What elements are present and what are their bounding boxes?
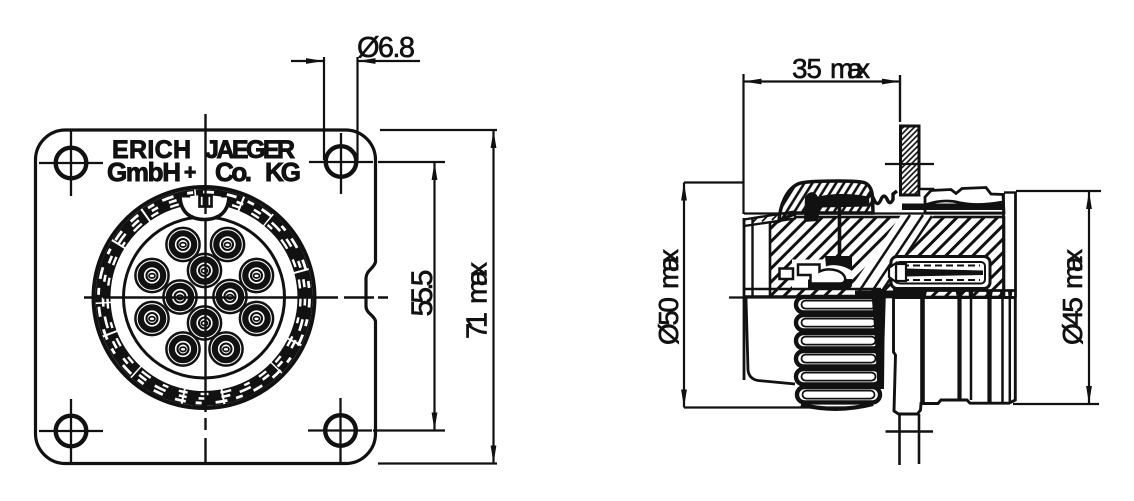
crimp contact with wire [889, 257, 990, 289]
flange plate outline [36, 130, 376, 464]
svg-text:Co.: Co. [215, 157, 252, 187]
svg-text:Ø6.8: Ø6.8 [357, 32, 415, 64]
mounting flange front face [729, 218, 795, 380]
mounting hole bottom-right [308, 398, 372, 462]
dimension 55.5 [373, 162, 445, 431]
pin 7 (outer ring, 292.5 deg) [209, 332, 242, 365]
cable bellows (ribs) [796, 297, 881, 409]
pin 8 (outer ring, 337.5 deg) [240, 302, 273, 335]
gasket bump (hatched) [779, 181, 873, 221]
dimension 35 max [744, 53, 901, 214]
rubber seal blob (black) [804, 192, 870, 222]
top wall shadow band [744, 204, 1004, 214]
svg-text:Ø45: Ø45 [1057, 297, 1088, 345]
pin 11 (inner bottom) [188, 306, 221, 339]
pin 1 (outer ring, 22.5 deg) [240, 259, 273, 292]
svg-text:GmbH: GmbH [107, 157, 181, 187]
mounting hole top-right [309, 133, 373, 194]
grounding stud (hatched) [885, 75, 934, 195]
svg-text:+: + [184, 161, 196, 184]
step right of stud [919, 189, 944, 196]
top rim strip [744, 212, 795, 227]
svg-text:71: 71 [462, 312, 494, 339]
pin 4 (outer ring, 157.5 deg) [135, 259, 168, 292]
svg-text:max: max [653, 249, 684, 289]
main hatched housing block [770, 217, 1004, 297]
pin 6 (outer ring, 247.5 deg) [166, 332, 199, 365]
brand text line 2: GmbH + Co. KG [107, 157, 301, 187]
dimension 71 max [378, 130, 497, 464]
polarizing keyway [180, 196, 229, 220]
cap/body joint line [838, 204, 842, 258]
svg-text:35: 35 [792, 53, 822, 84]
dimension diameter 50 max [653, 183, 852, 408]
shadow wedge between bellows and nut [872, 289, 886, 389]
housing right wall [1004, 192, 1017, 297]
svg-text:Ø50: Ø50 [653, 297, 684, 345]
pin 10 (inner right) [213, 280, 246, 313]
sparse hatch relief channel [845, 215, 934, 296]
pin 2 (outer ring, 67.5 deg) [211, 228, 244, 261]
socket contact cavity [780, 256, 853, 288]
cable [886, 414, 934, 465]
retaining cap strip [925, 188, 1004, 214]
housing bottom wall [744, 289, 1015, 298]
dimension diameter 45 max [1013, 191, 1101, 404]
spring clip squiggle [867, 191, 897, 204]
pin 12 (inner left) [163, 280, 196, 313]
pin 3 (outer ring, 112.5 deg) [166, 228, 199, 261]
body silhouette underlay [744, 218, 1016, 412]
svg-text:max: max [462, 262, 494, 305]
svg-text:55.5: 55.5 [406, 270, 439, 317]
brand text line 1: ERICH JAEGER [112, 136, 295, 164]
connector shell outer knurled ring [94, 187, 315, 408]
svg-text:max: max [830, 53, 870, 84]
center lines of front view [84, 114, 388, 463]
insert face circle [124, 217, 285, 378]
coupling nut with ribs [894, 298, 1016, 415]
mounting hole top-left [39, 131, 103, 196]
pin 5 (outer ring, 202.5 deg) [135, 302, 168, 335]
mounting hole bottom-left [39, 399, 103, 463]
svg-text:KG: KG [265, 157, 301, 187]
pin 9 (inner top) [188, 254, 221, 287]
svg-text:max: max [1057, 249, 1088, 289]
rubber boot outline [746, 298, 795, 384]
dimension diameter 6.8 [291, 32, 420, 160]
